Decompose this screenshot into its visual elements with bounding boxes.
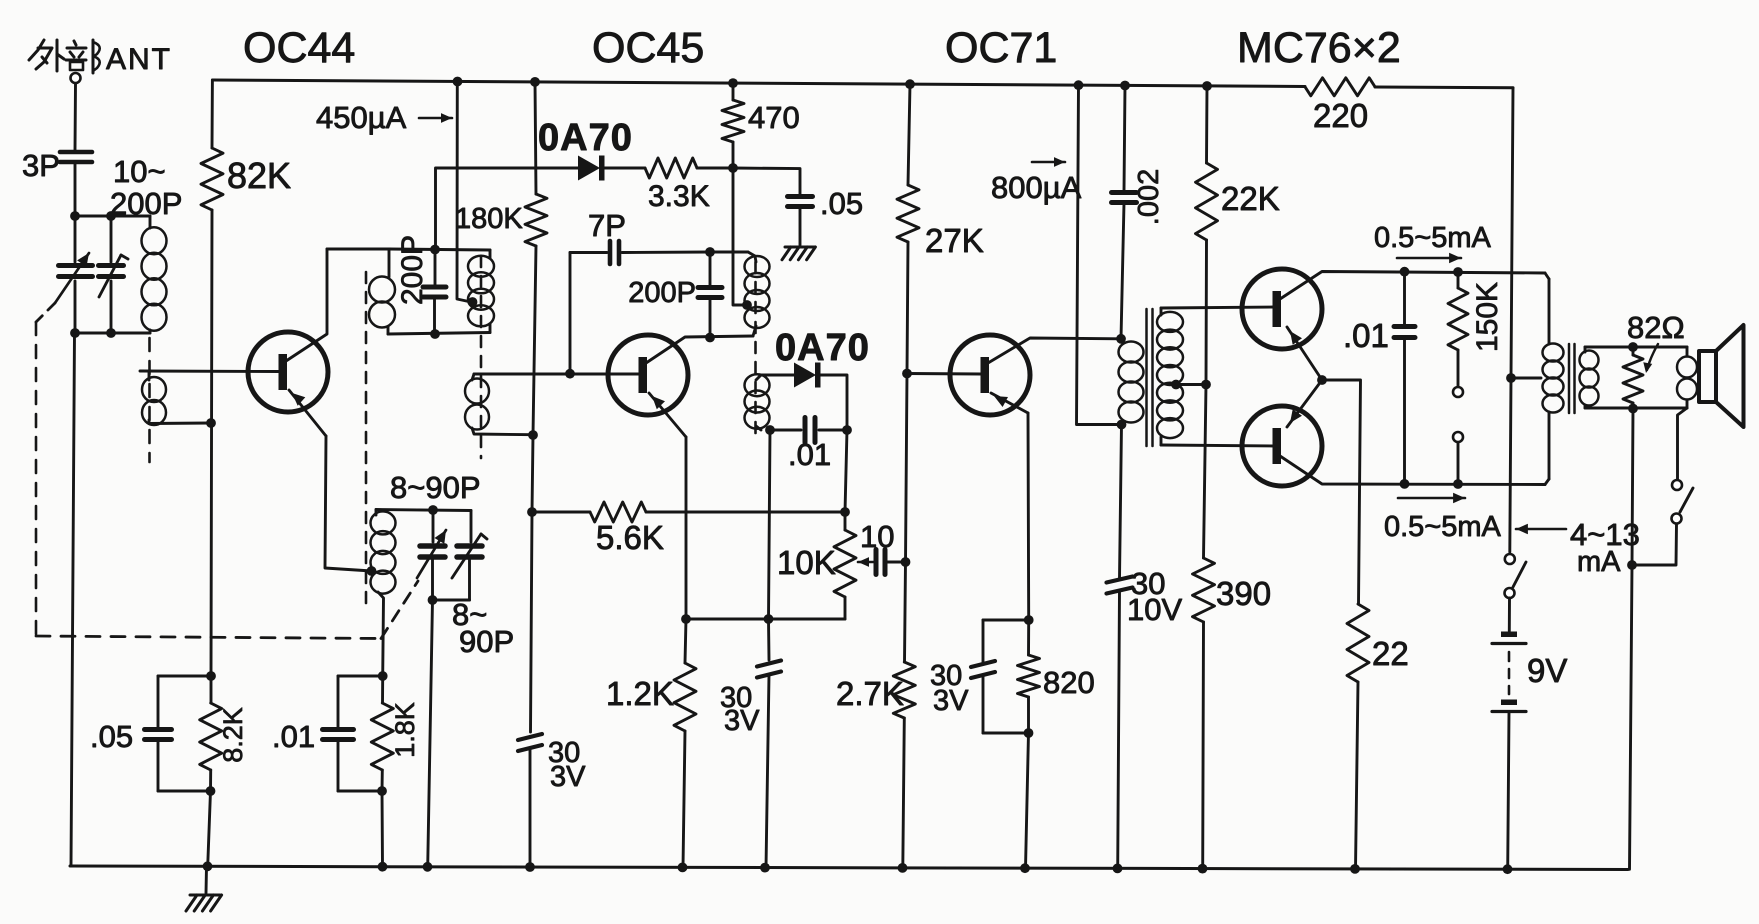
svg-text:1.8K: 1.8K — [390, 702, 420, 758]
node rail-IF1tap — [453, 77, 463, 87]
svg-text:390: 390 — [1216, 575, 1271, 612]
svg-text:200P: 200P — [396, 235, 429, 305]
svg-text:90P: 90P — [459, 624, 514, 659]
resistor 470 — [722, 83, 744, 168]
coil driver primary — [1119, 342, 1144, 423]
label .01 (det) — [788, 437, 831, 472]
battery 9V — [1492, 632, 1526, 870]
wire osc trimmer bottom link — [433, 599, 470, 602]
svg-text:200P: 200P — [628, 277, 696, 309]
wire secondary top — [1585, 346, 1687, 349]
wire OC45 emitter — [649, 393, 686, 619]
label 200P rotated — [396, 235, 429, 305]
label 30 10V — [1127, 566, 1182, 627]
node rail-drvT — [1074, 80, 1084, 90]
node 150K top — [1453, 267, 1463, 277]
wire trimmer2 bottom — [110, 281, 113, 333]
dashed IF2 core — [754, 262, 757, 435]
label 0.5-5mA bottom — [1384, 493, 1502, 543]
node bias net bottom — [206, 786, 216, 796]
svg-text:82Ω: 82Ω — [1627, 310, 1685, 345]
node gnd-batt — [1503, 864, 1513, 874]
wire bottom ground rail — [70, 866, 1628, 870]
label 1.2K — [606, 675, 674, 712]
label OC44 — [243, 24, 355, 72]
coil base coupling (OC44) — [142, 371, 166, 425]
resistor 390 — [1193, 385, 1215, 869]
resistor 1.2K — [674, 619, 696, 867]
wire out-T primary bottom — [1545, 412, 1549, 485]
node detector out — [842, 425, 852, 435]
wire varcap1 top — [74, 216, 77, 262]
wire 820 bracket top — [983, 619, 1029, 622]
coil IF1 secondary — [468, 250, 494, 333]
wire 27K line mid — [906, 374, 908, 563]
resistor 820 — [1018, 620, 1040, 733]
node IF2 200P top — [705, 247, 715, 257]
svg-text:0A70: 0A70 — [775, 327, 870, 369]
node 82ohm top — [1628, 342, 1638, 352]
label 30 3V (b) — [720, 682, 760, 737]
node 82K-coil junction — [206, 418, 216, 428]
wire IF2 top link — [710, 251, 748, 254]
node rail-22K — [1202, 81, 1212, 91]
node rail-27K — [905, 79, 915, 89]
svg-text:.01: .01 — [272, 719, 315, 754]
node IF2 primary tap — [742, 300, 752, 310]
node rail-470 — [728, 78, 738, 88]
svg-text:ANT: ANT — [106, 43, 172, 76]
wire bias net to rail — [208, 791, 211, 866]
svg-text:10K: 10K — [777, 544, 836, 581]
node detector return — [764, 614, 774, 624]
svg-text:3V: 3V — [933, 685, 969, 717]
label .05 (bias) — [90, 719, 133, 754]
svg-text:MC76×2: MC76×2 — [1237, 24, 1401, 72]
resistor 27K — [897, 84, 919, 373]
label 4-13mA — [1516, 517, 1640, 578]
svg-text:.01: .01 — [1343, 317, 1389, 354]
coil IF2 secondary (detector) — [745, 374, 770, 430]
wire driver primary bottom to rail — [1077, 85, 1122, 424]
capacitor 30uF 3V (a) — [518, 734, 542, 867]
node 82ohm bottom — [1628, 404, 1638, 414]
core driver transformer — [1147, 309, 1153, 446]
label .01 (osc) — [272, 719, 315, 754]
wiper 10K with 10 cap — [858, 550, 906, 575]
wire IF1 top link — [327, 249, 389, 277]
resistor 1.8K — [371, 676, 393, 791]
wire 180K line mid — [532, 435, 533, 512]
wire detector to volume — [845, 430, 847, 512]
node osc net top — [378, 671, 388, 681]
capacitor .05 (bias) — [145, 676, 172, 791]
svg-text:8~90P: 8~90P — [390, 470, 481, 505]
wire tank top link — [75, 215, 150, 218]
node antenna terminal — [71, 73, 81, 83]
wire OC44 base — [140, 370, 279, 373]
wire OC44 emitter — [289, 390, 372, 571]
capacitor .002 — [1112, 86, 1137, 339]
label 30 3V (c) — [930, 660, 969, 717]
label 82K — [227, 155, 291, 196]
svg-text:8.2K: 8.2K — [218, 707, 248, 763]
switch power — [1505, 554, 1527, 598]
wire emitter bus to 22 — [1322, 380, 1361, 604]
svg-text:7P: 7P — [588, 208, 626, 243]
transistor MC76 lower — [1242, 406, 1322, 486]
wire driver sec bottom to base — [1161, 445, 1274, 446]
core output transformer — [1569, 344, 1575, 413]
node detector coil bottom — [765, 425, 775, 435]
wire OC45 collector — [646, 336, 753, 363]
transistor OC71 — [950, 335, 1030, 415]
label 200P (IF2) — [628, 277, 696, 309]
node tank bottom left — [70, 328, 80, 338]
diode OA70 (AGC) — [578, 156, 605, 181]
wire 3P to tank — [74, 162, 77, 216]
wire out-T primary top — [1545, 273, 1549, 344]
speaker — [1699, 325, 1744, 427]
svg-text:OC71: OC71 — [945, 24, 1057, 72]
svg-text:OC44: OC44 — [243, 24, 355, 72]
variable capacitor 10-200P (tuning) — [55, 253, 93, 303]
resistor 150K with test points — [1448, 272, 1468, 484]
resistor 220 (in supply rail) — [1305, 78, 1375, 96]
coil antenna (ferrite rod) — [142, 216, 167, 333]
wire to rail right — [1630, 565, 1633, 869]
resistor 22 — [1347, 604, 1369, 869]
wire 82ohm down — [1632, 409, 1633, 566]
wire emitter bus — [686, 618, 845, 621]
resistor 5.6K — [532, 502, 845, 522]
variable capacitor trimmer (ant) — [99, 255, 129, 297]
wire rail to IF1 tap — [457, 82, 471, 303]
capacitor 200P (IF1 tank) — [423, 250, 446, 335]
node osc trimmer top — [428, 505, 438, 515]
wire bias net bottom — [158, 790, 211, 793]
svg-text:3V: 3V — [724, 705, 760, 737]
node gnd-82K — [203, 861, 213, 871]
resistor 3.3K — [645, 158, 697, 178]
coil driver secondary — [1157, 308, 1183, 445]
svg-text:0A70: 0A70 — [538, 117, 633, 159]
coil IF1 primary — [369, 277, 395, 335]
svg-text:1.2K: 1.2K — [606, 675, 674, 712]
svg-text:22: 22 — [1372, 635, 1409, 672]
node tank top mid — [106, 211, 116, 221]
label OA70 (AGC) — [538, 117, 633, 159]
coil voice coil — [1677, 347, 1697, 408]
label OC45 — [592, 24, 704, 72]
label OA70 (det) — [775, 327, 870, 369]
wire detector top — [761, 374, 794, 377]
wire 3.3K to node — [697, 167, 733, 170]
wire osc trimmer to rail — [428, 600, 433, 867]
label 82ohm — [1627, 310, 1685, 373]
wire MC76u emitter — [1287, 327, 1322, 380]
node rail-.002 — [1120, 81, 1130, 91]
node 150K bottom — [1453, 479, 1463, 489]
node 5.6K left — [527, 507, 537, 517]
node osc trimmer bottom — [428, 595, 438, 605]
wire osc net bottom — [338, 790, 382, 793]
node bias net top — [206, 671, 216, 681]
wire detector diode out — [820, 375, 847, 430]
label OC71 — [945, 24, 1057, 72]
svg-text:.05: .05 — [90, 719, 133, 754]
label 22K — [1221, 180, 1280, 217]
node gnd-1.2K — [678, 863, 688, 873]
wire driver sec top to base — [1161, 307, 1274, 308]
node osc net bottom — [377, 786, 387, 796]
svg-text:10V: 10V — [1127, 592, 1182, 627]
label 8.2K rotated — [218, 707, 248, 763]
label 30 3V (a) — [548, 737, 586, 793]
svg-text:10: 10 — [860, 519, 894, 554]
dashed osc core — [365, 272, 368, 612]
wire OC45 base — [474, 373, 639, 376]
label 22 — [1372, 635, 1409, 672]
wire 30uF(3V)a line — [531, 512, 533, 732]
node gnd-390 — [1198, 864, 1208, 874]
resistor 10K (volume) — [834, 512, 856, 619]
label MC76x2 — [1237, 24, 1401, 72]
ground (main chassis) — [186, 866, 222, 911]
node OC71 base node — [902, 369, 912, 379]
wire 820 bracket bottom — [983, 732, 1029, 735]
wire coupling coil bottom — [149, 422, 211, 425]
wire switch to battery — [1508, 598, 1511, 631]
node gnd-30uF10V — [1113, 864, 1123, 874]
label .002 rotated — [1133, 169, 1165, 225]
wire center tap link — [1511, 377, 1541, 380]
wire antenna tank to ground rail — [71, 333, 75, 866]
capacitor 3P — [60, 152, 92, 162]
wire osc net to rail — [381, 791, 384, 867]
label 470 — [748, 100, 800, 135]
resistor 8.2K — [200, 676, 222, 791]
wire AGC corner — [436, 168, 579, 250]
svg-text:.002: .002 — [1133, 169, 1165, 225]
switch earphone — [1632, 408, 1693, 565]
node gnd-osctrim — [423, 862, 433, 872]
label 450uA — [316, 100, 452, 135]
label 2.7K — [836, 675, 904, 712]
svg-text:0.5~5mA: 0.5~5mA — [1374, 222, 1492, 254]
variable capacitor 8-90P (osc trim) — [452, 511, 487, 601]
svg-text:10~: 10~ — [113, 154, 166, 189]
wire tank bottom link — [75, 332, 150, 335]
wire secondary bottom — [1585, 407, 1687, 410]
wire bias net top — [158, 675, 211, 678]
label 7P — [588, 208, 626, 243]
variable capacitor 8-90P (osc main) — [417, 510, 446, 600]
wire OC71 base — [907, 372, 981, 375]
wire osc top link — [376, 510, 471, 511]
node wiper to 27K line — [901, 557, 911, 567]
label 9V — [1527, 652, 1567, 689]
svg-text:0.5~5mA: 0.5~5mA — [1384, 511, 1502, 543]
label 8~90P — [390, 470, 481, 505]
wire OC44 collector — [286, 249, 327, 361]
wire detector return line — [769, 430, 771, 619]
label .05 (AGC) — [820, 186, 863, 221]
svg-text:9V: 9V — [1527, 652, 1567, 689]
svg-text:3.3K: 3.3K — [648, 180, 710, 213]
resistor 82K — [201, 80, 223, 676]
resistor 82ohm — [1623, 347, 1643, 409]
label 1.8K rotated — [390, 702, 420, 758]
node output transformer center tap — [1506, 373, 1516, 383]
node OC71 collector node — [1116, 334, 1126, 344]
coil IF2 primary — [745, 252, 770, 336]
coil out-T secondary — [1580, 347, 1599, 408]
transistor OC44 — [248, 332, 328, 412]
label 3P — [22, 148, 60, 183]
svg-text:27K: 27K — [925, 222, 984, 259]
capacitor 30uF 3V (b) — [757, 619, 781, 868]
capacitor 200P (IF2) — [698, 252, 722, 338]
svg-text:220: 220 — [1313, 97, 1368, 134]
capacitor .01 (detector) — [770, 418, 847, 443]
node 7P junction — [565, 369, 575, 379]
wire OC71 emitter — [991, 393, 1029, 620]
svg-text:.05: .05 — [820, 186, 863, 221]
node tank top left — [70, 211, 80, 221]
svg-text:mA: mA — [1577, 546, 1621, 578]
wire osc net top — [338, 675, 383, 678]
label 0.5-5mA top — [1374, 222, 1492, 263]
svg-text:3V: 3V — [550, 761, 586, 793]
node driver primary bottom — [1117, 420, 1127, 430]
node OC45 emitter node — [681, 614, 691, 624]
wire IF2 tap feed — [733, 168, 747, 305]
coil out-T primary — [1543, 344, 1564, 413]
wire OC71 collector — [988, 338, 1121, 363]
capacitor .05 (AGC) — [733, 168, 813, 245]
label 10 (cap) — [860, 519, 894, 554]
svg-text:180K: 180K — [455, 203, 523, 235]
node .01 bottom — [1400, 479, 1410, 489]
svg-text:200P: 200P — [110, 186, 182, 221]
node AGC junction — [728, 163, 738, 173]
label 10K — [777, 544, 836, 581]
wire trimmer2 top — [110, 216, 113, 262]
wire MC76l emitter — [1287, 380, 1322, 427]
node IF1 200P top — [430, 245, 440, 255]
node IF2 200P bottom — [705, 333, 715, 343]
label 10~ 200P — [110, 154, 182, 221]
node emitter common — [1317, 375, 1327, 385]
wire varcap1 bottom — [74, 281, 77, 333]
ground (AGC) — [782, 247, 815, 260]
node gnd-30uF3V-a — [525, 862, 535, 872]
label 外部ANT — [29, 40, 172, 76]
resistor 22K — [1196, 86, 1218, 385]
dashed gang link left — [36, 303, 418, 639]
coil OC45 base coupling — [465, 374, 533, 435]
wire antenna down — [74, 84, 77, 150]
svg-text:800µA: 800µA — [991, 170, 1082, 205]
dashed ferrite core — [148, 338, 151, 462]
wire IF1 top right — [389, 249, 490, 250]
svg-text:OC45: OC45 — [592, 24, 704, 72]
label 3.3K — [648, 180, 710, 213]
wire IF1 bottom link — [388, 333, 490, 335]
wire battery feed — [1510, 88, 1513, 552]
svg-text:82K: 82K — [227, 155, 291, 196]
label 180K — [455, 203, 523, 235]
transistor MC76 upper — [1242, 269, 1322, 349]
node IF1 secondary tap — [468, 297, 478, 307]
node tank bottom mid — [106, 328, 116, 338]
label 5.6K — [596, 519, 664, 556]
capacitor 30uF 3V (c) — [971, 620, 995, 733]
coil oscillator — [371, 510, 396, 677]
node 180K to base coil — [528, 430, 538, 440]
svg-text:150K: 150K — [1471, 282, 1504, 352]
wire center tap — [1176, 383, 1206, 386]
node gnd-1.8K — [378, 862, 388, 872]
node gnd-22 — [1350, 864, 1360, 874]
svg-text:470: 470 — [748, 100, 800, 135]
label .01 (output) — [1343, 317, 1389, 354]
svg-text:5.6K: 5.6K — [596, 519, 664, 556]
svg-text:450µA: 450µA — [316, 100, 407, 135]
label 390 — [1216, 575, 1271, 612]
svg-text:820: 820 — [1043, 665, 1095, 700]
node OC71 emitter node — [1024, 615, 1034, 625]
node 820 bottom — [1024, 728, 1034, 738]
svg-text:.01: .01 — [788, 437, 831, 472]
capacitor 7P — [570, 241, 710, 374]
wire MC76l collector — [1280, 456, 1545, 485]
node IF1 200P bottom — [430, 329, 440, 339]
node speaker return — [1627, 560, 1637, 570]
node OC44 emitter tap on osc coil — [367, 566, 377, 576]
svg-text:22K: 22K — [1221, 180, 1280, 217]
capacitor .01 (osc) — [323, 676, 354, 791]
capacitor 30uF 10V — [1107, 425, 1133, 869]
label 820 — [1043, 665, 1095, 700]
node .01 top — [1400, 267, 1410, 277]
wire top supply rail — [213, 80, 1514, 88]
capacitor .01 (output) — [1394, 272, 1415, 484]
wire MC76u collector — [1280, 272, 1545, 300]
node 5.6K right — [840, 507, 850, 517]
node driver center tap — [1171, 380, 1181, 390]
wire 820 to rail — [1026, 733, 1029, 868]
label 8~ 90P (2) — [452, 597, 514, 659]
label 220 — [1313, 97, 1368, 134]
node gnd-2.7K — [898, 863, 908, 873]
diode OA70 (detector) — [794, 363, 821, 388]
node tap-22K-390 — [1201, 380, 1211, 390]
label 27K — [925, 222, 984, 259]
dashed IF1 core — [480, 256, 483, 458]
svg-text:2.7K: 2.7K — [836, 675, 904, 712]
wire 27K line low — [905, 562, 906, 662]
node gnd-det — [760, 863, 770, 873]
node rail-180K — [530, 77, 540, 87]
resistor 180K — [525, 82, 547, 435]
wire diode to 3.3K — [604, 167, 645, 170]
label 150K rotated — [1471, 282, 1504, 352]
node gnd-820 — [1020, 863, 1030, 873]
svg-text:3P: 3P — [22, 148, 60, 183]
transistor OC45 — [608, 335, 688, 415]
